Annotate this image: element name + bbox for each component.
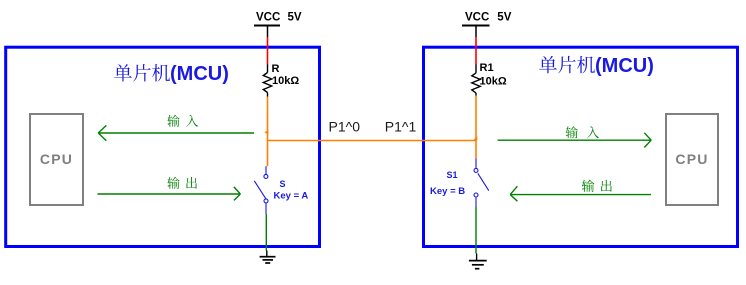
svg-text:VCC: VCC: [256, 11, 280, 23]
wire: VCC to resistor R (red power wire): [267, 37, 269, 65]
wire: R to node P1^0 (orange vertical): [267, 97, 269, 167]
svg-text:10kΩ: 10kΩ: [480, 75, 507, 87]
svg-text:Key = A: Key = A: [274, 191, 309, 202]
svg-text:10kΩ: 10kΩ: [272, 75, 299, 87]
label: 输出 left: [167, 177, 197, 189]
wire: switch S to ground (green): [265, 214, 267, 251]
resistor R1 10kΩ right: [472, 65, 480, 96]
node P1^0 junction arrow: [264, 130, 268, 134]
svg-text:Key = B: Key = B: [430, 186, 465, 197]
svg-text:CPU: CPU: [675, 151, 708, 167]
svg-text:(MCU): (MCU): [595, 55, 654, 77]
switch S left (Key = A): [254, 166, 268, 214]
svg-text:(MCU): (MCU): [170, 63, 229, 85]
power symbol VCC left (5V): [254, 11, 302, 37]
label: 单片机(MCU) right title: [539, 55, 654, 77]
wire: switch S1 to ground (green): [475, 207, 477, 254]
MCU block left (blue box): [6, 47, 320, 246]
CPU block right: [666, 114, 718, 205]
svg-text:5V: 5V: [497, 11, 511, 23]
wire: VCC to resistor R1 (red power wire): [475, 37, 477, 65]
svg-text:5V: 5V: [288, 11, 302, 23]
label: 输入 left: [167, 115, 198, 127]
ground symbol right: [469, 254, 487, 269]
svg-text:R1: R1: [480, 62, 494, 74]
svg-text:VCC: VCC: [465, 11, 489, 23]
wire: R1 to node P1^1 (orange vertical): [475, 96, 477, 159]
label: 输出 right: [582, 180, 612, 192]
MCU block right (blue box): [424, 47, 738, 246]
svg-text:S1: S1: [447, 170, 458, 180]
wire: node P1^0 to node P1^1 (orange horizontal): [268, 140, 477, 142]
node P1^1 junction arrow: [473, 136, 477, 140]
ground symbol left: [260, 251, 276, 264]
CPU block left: [30, 114, 83, 205]
output arrow left (from CPU): [98, 187, 241, 201]
svg-text:CPU: CPU: [40, 151, 73, 167]
svg-text:R: R: [272, 63, 280, 75]
resistor R 10kΩ left: [263, 65, 271, 97]
svg-text:S: S: [280, 179, 286, 189]
svg-text:P1^1: P1^1: [385, 119, 417, 135]
power symbol VCC right (5V): [462, 11, 512, 37]
label: 单片机(MCU) left title: [114, 63, 229, 85]
svg-text:P1^0: P1^0: [329, 119, 361, 135]
switch S1 right (Key = B): [474, 159, 489, 207]
label: 输入 right: [566, 126, 599, 138]
output arrow right (from CPU): [510, 186, 651, 201]
input arrow left (to CPU): [98, 125, 254, 140]
input arrow right (to CPU): [498, 133, 652, 148]
